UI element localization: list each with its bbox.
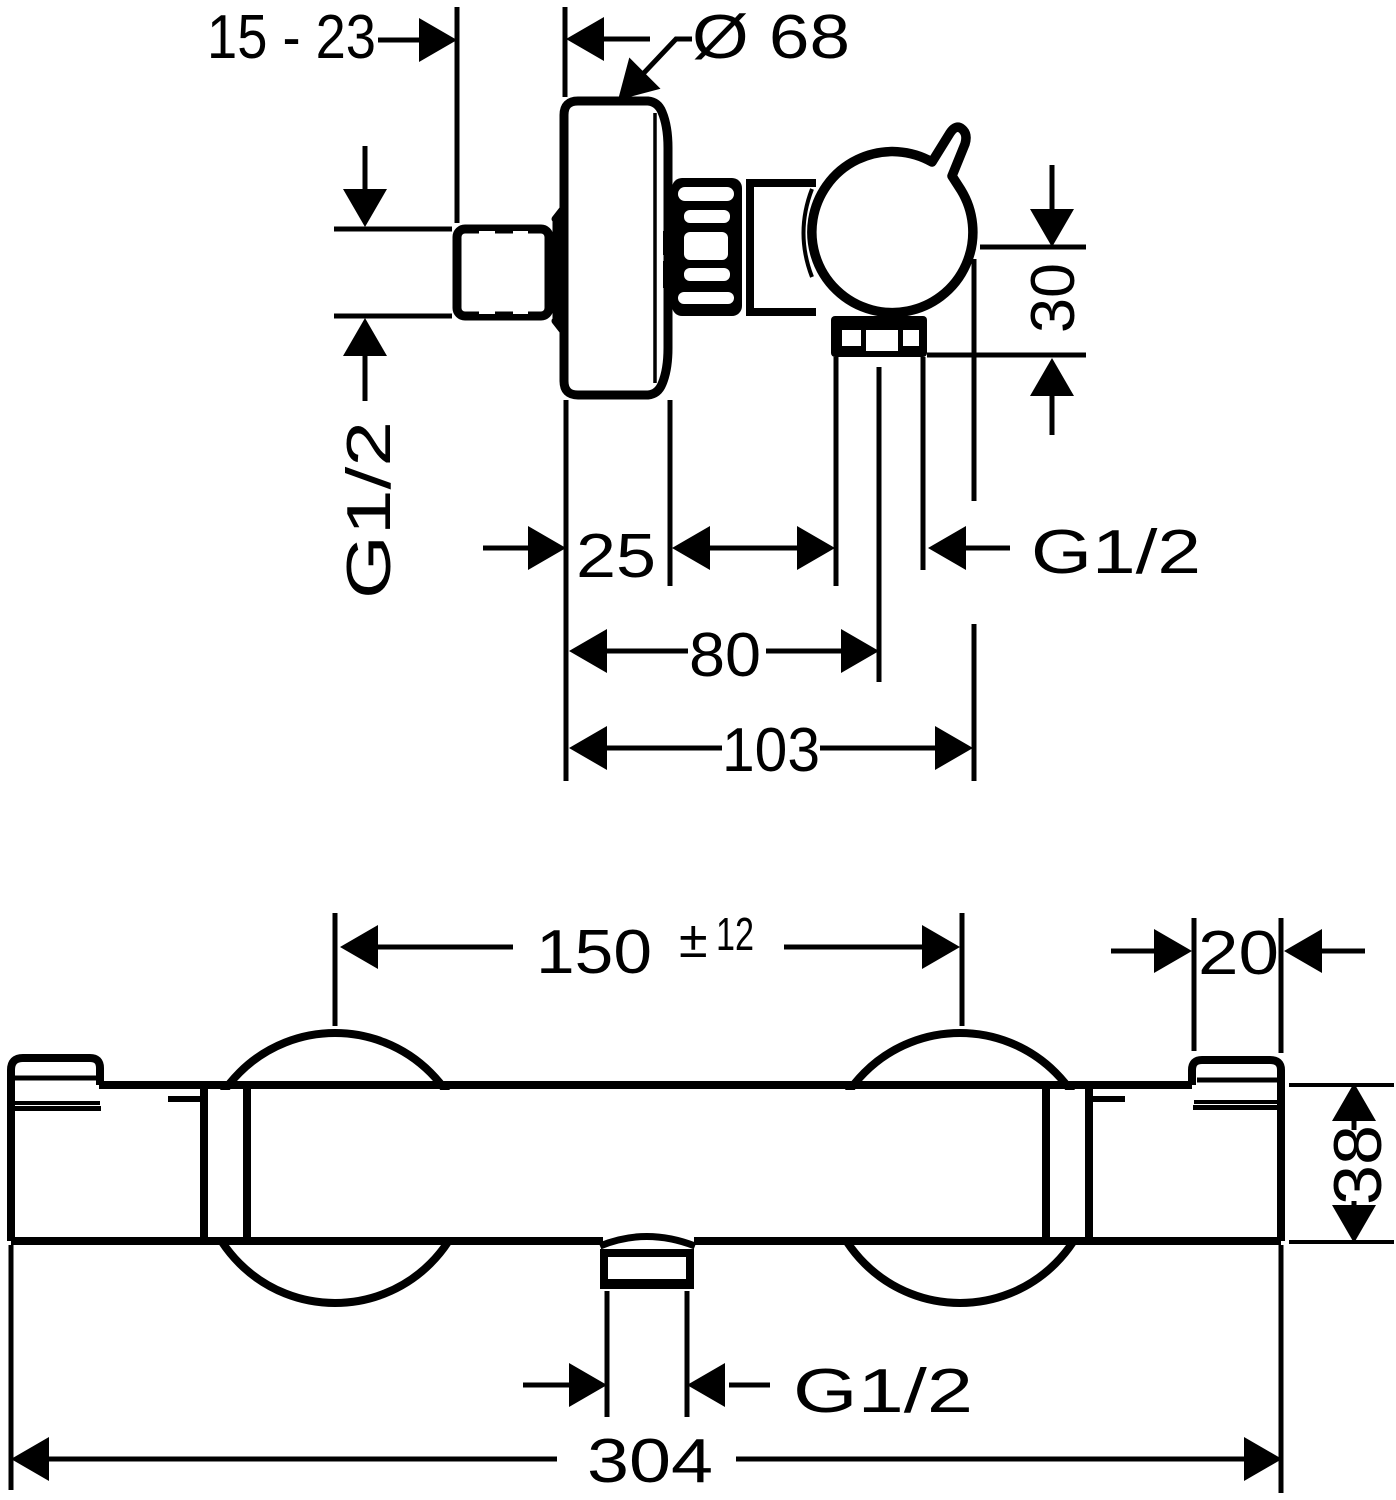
svg-text:150: 150 <box>536 918 652 987</box>
svg-text:20: 20 <box>1198 919 1279 988</box>
svg-text:25: 25 <box>576 522 656 591</box>
svg-text:30: 30 <box>1019 263 1088 333</box>
svg-text:G1/2: G1/2 <box>1031 518 1201 587</box>
svg-text:38: 38 <box>1320 1125 1396 1205</box>
svg-text:15 - 23: 15 - 23 <box>207 3 376 72</box>
svg-text:±: ± <box>679 911 708 969</box>
svg-text:103: 103 <box>722 716 820 785</box>
svg-text:G1/2: G1/2 <box>793 1357 973 1426</box>
svg-text:G1/2: G1/2 <box>335 421 404 599</box>
svg-text:304: 304 <box>587 1427 713 1496</box>
svg-text:12: 12 <box>716 908 754 960</box>
svg-text:80: 80 <box>689 621 761 690</box>
svg-text:Ø 68: Ø 68 <box>692 3 850 72</box>
